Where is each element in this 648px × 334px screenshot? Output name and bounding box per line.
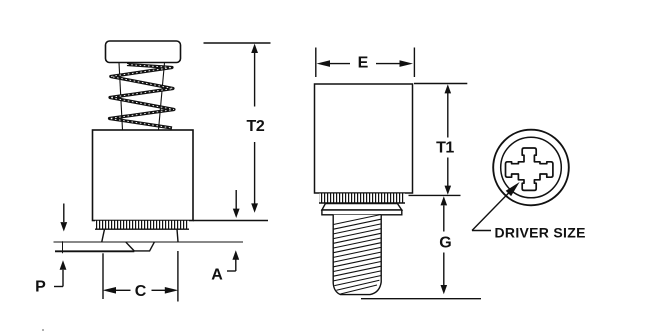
panel displacer trapezoid (126, 242, 154, 251)
dimension C (103, 251, 179, 302)
screw head (side view) (106, 41, 181, 63)
svg-text:G: G (439, 235, 451, 252)
thread helix lines (333, 215, 381, 295)
knurl band left figure (95, 221, 189, 229)
P witness tick (62, 241, 64, 253)
phillips recess (506, 148, 553, 190)
retainer body (93, 130, 194, 221)
threaded stud outline (333, 215, 381, 295)
dimension A (211, 190, 239, 284)
retainer washer (322, 204, 402, 211)
leader line to driver size (472, 182, 520, 231)
svg-text:E: E (358, 54, 369, 71)
body bottom extension line (193, 220, 268, 222)
screw shank (119, 63, 123, 130)
spring (110, 65, 175, 129)
G bottom extension line (361, 298, 481, 300)
panel bottom line (55, 250, 134, 252)
svg-text:A: A (211, 267, 223, 284)
dimension P (35, 204, 67, 296)
dimension T2 (204, 43, 271, 213)
svg-text:T2: T2 (246, 118, 264, 135)
dimension T1 (414, 84, 467, 195)
svg-text:P: P (35, 279, 46, 296)
svg-text:T1: T1 (436, 140, 454, 157)
body (middle figure) (315, 84, 413, 193)
inner circle (501, 137, 562, 198)
stray speck (42, 329, 44, 331)
flange sides (102, 229, 105, 242)
knurl band middle figure (319, 194, 405, 204)
svg-text:C: C (135, 283, 147, 300)
T1/G shared extension line (409, 194, 461, 196)
dimension G (439, 196, 451, 294)
dimension E (316, 48, 415, 78)
panel top line (54, 241, 244, 243)
svg-text:DRIVER SIZE: DRIVER SIZE (495, 225, 586, 241)
outer circle (493, 130, 569, 206)
